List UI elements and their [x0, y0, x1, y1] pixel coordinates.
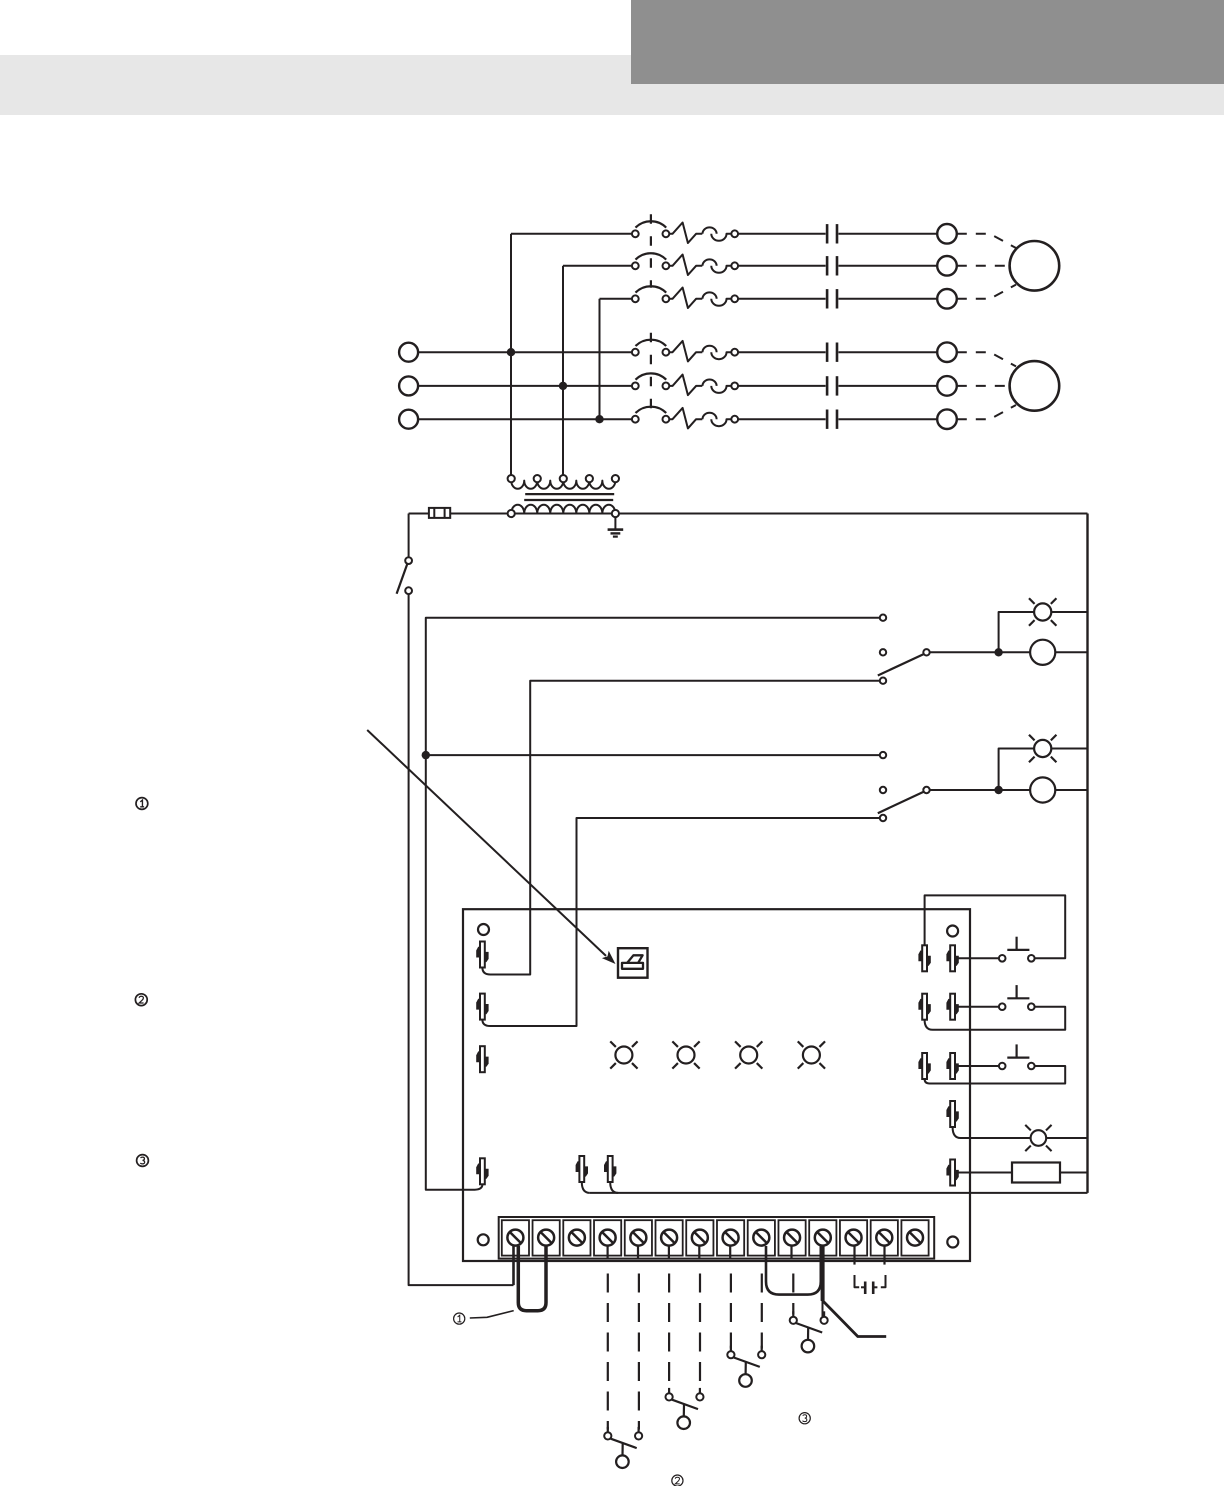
- wire SS1 common out: [930, 651, 1030, 653]
- wire K2 to bus: [1055, 789, 1087, 791]
- circuit breaker CB1 pole 3: [632, 286, 738, 308]
- ground symbol: [608, 517, 624, 537]
- field wire drop 1: [607, 1274, 609, 1430]
- label 3 marker: [799, 1413, 810, 1424]
- terminal TB-9: [748, 1220, 775, 1255]
- field wire drop 4: [699, 1274, 701, 1391]
- level sensor module icon: [618, 948, 648, 978]
- wire SS1 lower contact to board: [482, 681, 879, 975]
- wire control bus 2: [426, 618, 880, 1190]
- node L2 tap: [559, 382, 567, 390]
- alarm pilot light PL3: [1025, 1125, 1051, 1151]
- field wire drop 2: [638, 1274, 640, 1430]
- wire tap to transformer primary left: [510, 352, 512, 475]
- board terminal C3b: [946, 1053, 958, 1079]
- wire common rail to bus: [590, 1192, 1088, 1194]
- float switch FS1: [604, 1427, 642, 1468]
- terminal TB-2: [533, 1220, 560, 1255]
- wire riser L2 to motor1 pole2: [562, 266, 564, 386]
- wire L2 to breaker: [418, 385, 632, 387]
- motor terminal M1 pole 2: [937, 256, 957, 276]
- wire junction up to pilot 2: [999, 749, 1035, 791]
- label 2 marker: [672, 1475, 683, 1486]
- pushbutton PB3: [999, 1044, 1035, 1069]
- wire breaker to contactor M2 pole 3: [738, 418, 826, 420]
- jumper TB-9 to TB-11: [766, 1246, 821, 1295]
- supply terminal L2: [399, 376, 418, 395]
- circuit breaker CB1 pole 2: [632, 253, 738, 275]
- board terminal C4: [946, 1101, 958, 1127]
- wire B2 to common rail: [610, 1182, 618, 1193]
- wire contactor M1 pole 2 to terminal: [839, 265, 938, 267]
- pushbutton PB1: [999, 937, 1035, 962]
- float switch FS3: [727, 1346, 765, 1387]
- contactor contact M2 pole 2: [827, 376, 837, 395]
- relay coil K1: [1030, 640, 1055, 665]
- wire L1 to breaker: [418, 351, 632, 353]
- mounting hole bottom right: [947, 1237, 958, 1248]
- field wire drop 3: [668, 1274, 670, 1391]
- dashed lead M2 phase 1: [957, 352, 1016, 366]
- board terminal A1: [476, 942, 488, 968]
- dashed lead M2 phase 3: [957, 405, 1016, 419]
- terminal lead at x607: [606, 1246, 608, 1259]
- status LED 3: [735, 1041, 762, 1068]
- wire breaker to contactor M2 pole 2: [738, 385, 826, 387]
- dashed lead M1 phase 1: [957, 234, 1016, 248]
- secondary right terminal: [612, 510, 619, 517]
- selector switch SS2: [878, 752, 930, 821]
- terminal TB-13: [871, 1220, 898, 1255]
- wire resistor to bus: [1060, 1172, 1088, 1174]
- terminal TB-6: [656, 1220, 683, 1255]
- terminal TB-8: [717, 1220, 744, 1255]
- board terminal C2b: [946, 994, 958, 1020]
- motor terminal M2 pole 3: [937, 409, 957, 429]
- terminal TB-1: [502, 1220, 529, 1255]
- field wire drop 5: [730, 1274, 732, 1349]
- motor M1: [1010, 241, 1060, 291]
- wire SS2 lower contact to board: [482, 818, 879, 1026]
- wire right control bus: [1086, 514, 1088, 1193]
- float switch FS2: [666, 1388, 704, 1429]
- board terminal C2a: [918, 994, 930, 1020]
- breaker CB2 trip link: [650, 333, 652, 409]
- mounting hole top right: [947, 926, 958, 937]
- contactor contact M1 pole 2: [827, 256, 837, 275]
- status LED 1: [610, 1041, 637, 1068]
- wire K1 to bus: [1055, 651, 1087, 653]
- wire TB-11 branch: [822, 1300, 887, 1337]
- motor terminal M2 pole 1: [937, 342, 957, 362]
- board terminal C5: [946, 1160, 958, 1186]
- disconnect switch S1: [397, 557, 412, 594]
- breaker CB1 trip link: [650, 214, 652, 287]
- transformer T1 primary winding: [508, 475, 619, 489]
- status LED 4: [798, 1041, 825, 1068]
- terminal strip TB outline: [499, 1217, 935, 1259]
- pilot light PL2: [1029, 735, 1056, 762]
- status LED 2: [672, 1041, 699, 1068]
- fuse F1: [429, 508, 450, 518]
- wire contactor M2 pole 3 to terminal: [839, 418, 938, 420]
- wire fuse to corner: [409, 513, 429, 515]
- supply terminal L1: [399, 343, 418, 362]
- motor terminal M2 pole 2: [937, 376, 957, 396]
- wire SS2 common out: [930, 789, 1030, 791]
- mounting hole top left: [478, 924, 489, 935]
- wire motor1 pole1 lead: [511, 233, 632, 235]
- contactor contact M2 pole 1: [827, 343, 837, 362]
- wire left bus to TB-1: [512, 1246, 515, 1285]
- wire pushbutton PB1 loop: [925, 895, 1066, 958]
- capacitor C1: [855, 1246, 886, 1294]
- node bus2 selector2 tap: [422, 751, 430, 759]
- wire C2b to PB2: [957, 1006, 999, 1008]
- wire L3 to breaker: [418, 418, 632, 420]
- wire PL3 to bus: [1046, 1137, 1087, 1139]
- wire pushbutton PB2 loop: [925, 1007, 1066, 1030]
- transformer T1 core: [524, 494, 614, 500]
- terminal TB-12: [840, 1220, 867, 1255]
- wire TB-11 drop: [821, 1246, 825, 1301]
- contactor contact M1 pole 1: [827, 224, 837, 243]
- wire contactor M1 pole 3 to terminal: [839, 298, 938, 300]
- wire motor1 pole2 lead: [563, 265, 632, 267]
- label 1 callout: [454, 1311, 514, 1325]
- board terminal A4: [476, 1158, 488, 1184]
- wire junction up to pilot: [999, 612, 1035, 652]
- wire B1 to common rail: [582, 1182, 590, 1193]
- note label 3: [137, 1155, 149, 1167]
- dashed lead M2 phase 2: [957, 385, 1010, 387]
- motor terminal M1 pole 3: [937, 289, 957, 309]
- terminal TB-7: [686, 1220, 713, 1255]
- resistor R1: [1012, 1163, 1060, 1183]
- wire breaker to contactor M1 pole 3: [738, 298, 826, 300]
- board terminal A2: [476, 994, 488, 1020]
- circuit breaker CB1 pole 1: [632, 221, 738, 243]
- secondary left terminal: [508, 510, 515, 517]
- circuit breaker CB2 pole 3: [632, 407, 738, 429]
- wire C1b to PB1: [957, 957, 999, 959]
- board terminal A3: [476, 1046, 488, 1072]
- terminal lead at x638: [637, 1246, 639, 1259]
- selector switch SS1: [878, 615, 930, 684]
- terminal lead at x699: [698, 1246, 700, 1259]
- jumper TB-1 to TB-2: [518, 1246, 546, 1311]
- pushbutton PB2: [999, 985, 1035, 1010]
- contactor contact M2 pole 3: [827, 410, 837, 429]
- motor M2: [1010, 361, 1060, 411]
- wire contactor M2 pole 2 to terminal: [839, 385, 938, 387]
- terminal TB-5: [625, 1220, 652, 1255]
- mounting hole bottom left: [478, 1234, 489, 1245]
- wire contactor M2 pole 1 to terminal: [839, 351, 938, 353]
- wire breaker to contactor M1 pole 2: [738, 265, 826, 267]
- wire contactor M1 pole 1 to terminal: [839, 233, 938, 235]
- wire selector SS2 top feed: [426, 754, 880, 756]
- node L1 tap: [507, 348, 515, 356]
- note label 1: [136, 798, 148, 810]
- node L3 tap: [595, 415, 603, 423]
- terminal TB-14: [901, 1220, 928, 1255]
- node K1 junction: [994, 648, 1002, 656]
- header dark gray panel: [631, 0, 1224, 84]
- wire pushbutton PB3 loop: [925, 1066, 1066, 1084]
- field wire drop 7: [792, 1274, 794, 1315]
- wire left bus: [409, 594, 514, 1285]
- board terminal C1b: [946, 945, 958, 971]
- note label 2: [135, 994, 147, 1006]
- wire corner down to switch: [408, 514, 410, 558]
- wire breaker to contactor M2 pole 1: [738, 351, 826, 353]
- controller board outline: [463, 909, 970, 1261]
- wire riser L3 to motor1 pole3: [599, 299, 601, 419]
- wire C5 to resistor: [957, 1172, 1012, 1174]
- wire secondary to right bus: [450, 513, 1087, 515]
- motor terminal M1 pole 1: [937, 224, 957, 244]
- wire C4 to alarm pilot: [953, 1127, 1031, 1138]
- float switch FS4: [790, 1311, 828, 1352]
- node K2 junction: [994, 786, 1002, 794]
- wire C3b to PB3: [957, 1065, 999, 1067]
- contactor contact M1 pole 3: [827, 289, 837, 308]
- wire branch stub: [822, 1302, 824, 1317]
- board terminal B1: [576, 1156, 588, 1182]
- circuit breaker CB2 pole 2: [632, 373, 738, 395]
- wire tap to transformer primary mid: [562, 386, 564, 475]
- board terminal C3a: [918, 1053, 930, 1079]
- field wire drop 6: [761, 1274, 763, 1349]
- terminal TB-10: [778, 1220, 805, 1255]
- wire PL2 to bus: [1052, 748, 1088, 750]
- pilot light PL1: [1029, 598, 1056, 625]
- annotation arrow to level module: [367, 730, 615, 964]
- transformer T1 secondary winding: [511, 505, 615, 514]
- dashed lead M1 phase 2: [957, 265, 1010, 267]
- wire riser L1 to motor1 pole1: [510, 234, 512, 352]
- terminal lead at x668: [668, 1246, 670, 1259]
- terminal lead at x791: [790, 1246, 792, 1259]
- wire PL1 to bus: [1052, 611, 1088, 613]
- terminal lead at x730: [729, 1246, 731, 1259]
- relay coil K2: [1030, 777, 1055, 802]
- terminal TB-11: [809, 1220, 836, 1255]
- circuit breaker CB2 pole 1: [632, 340, 738, 362]
- board terminal C1a: [918, 945, 930, 971]
- board terminal B2: [604, 1156, 616, 1182]
- supply terminal L3: [399, 410, 418, 429]
- wire breaker to contactor M1 pole 1: [738, 233, 826, 235]
- header light gray band: [0, 55, 1224, 115]
- dashed lead M1 phase 3: [957, 285, 1016, 299]
- terminal TB-3: [563, 1220, 590, 1255]
- terminal TB-4: [594, 1220, 621, 1255]
- wire motor1 pole3 lead: [600, 298, 632, 300]
